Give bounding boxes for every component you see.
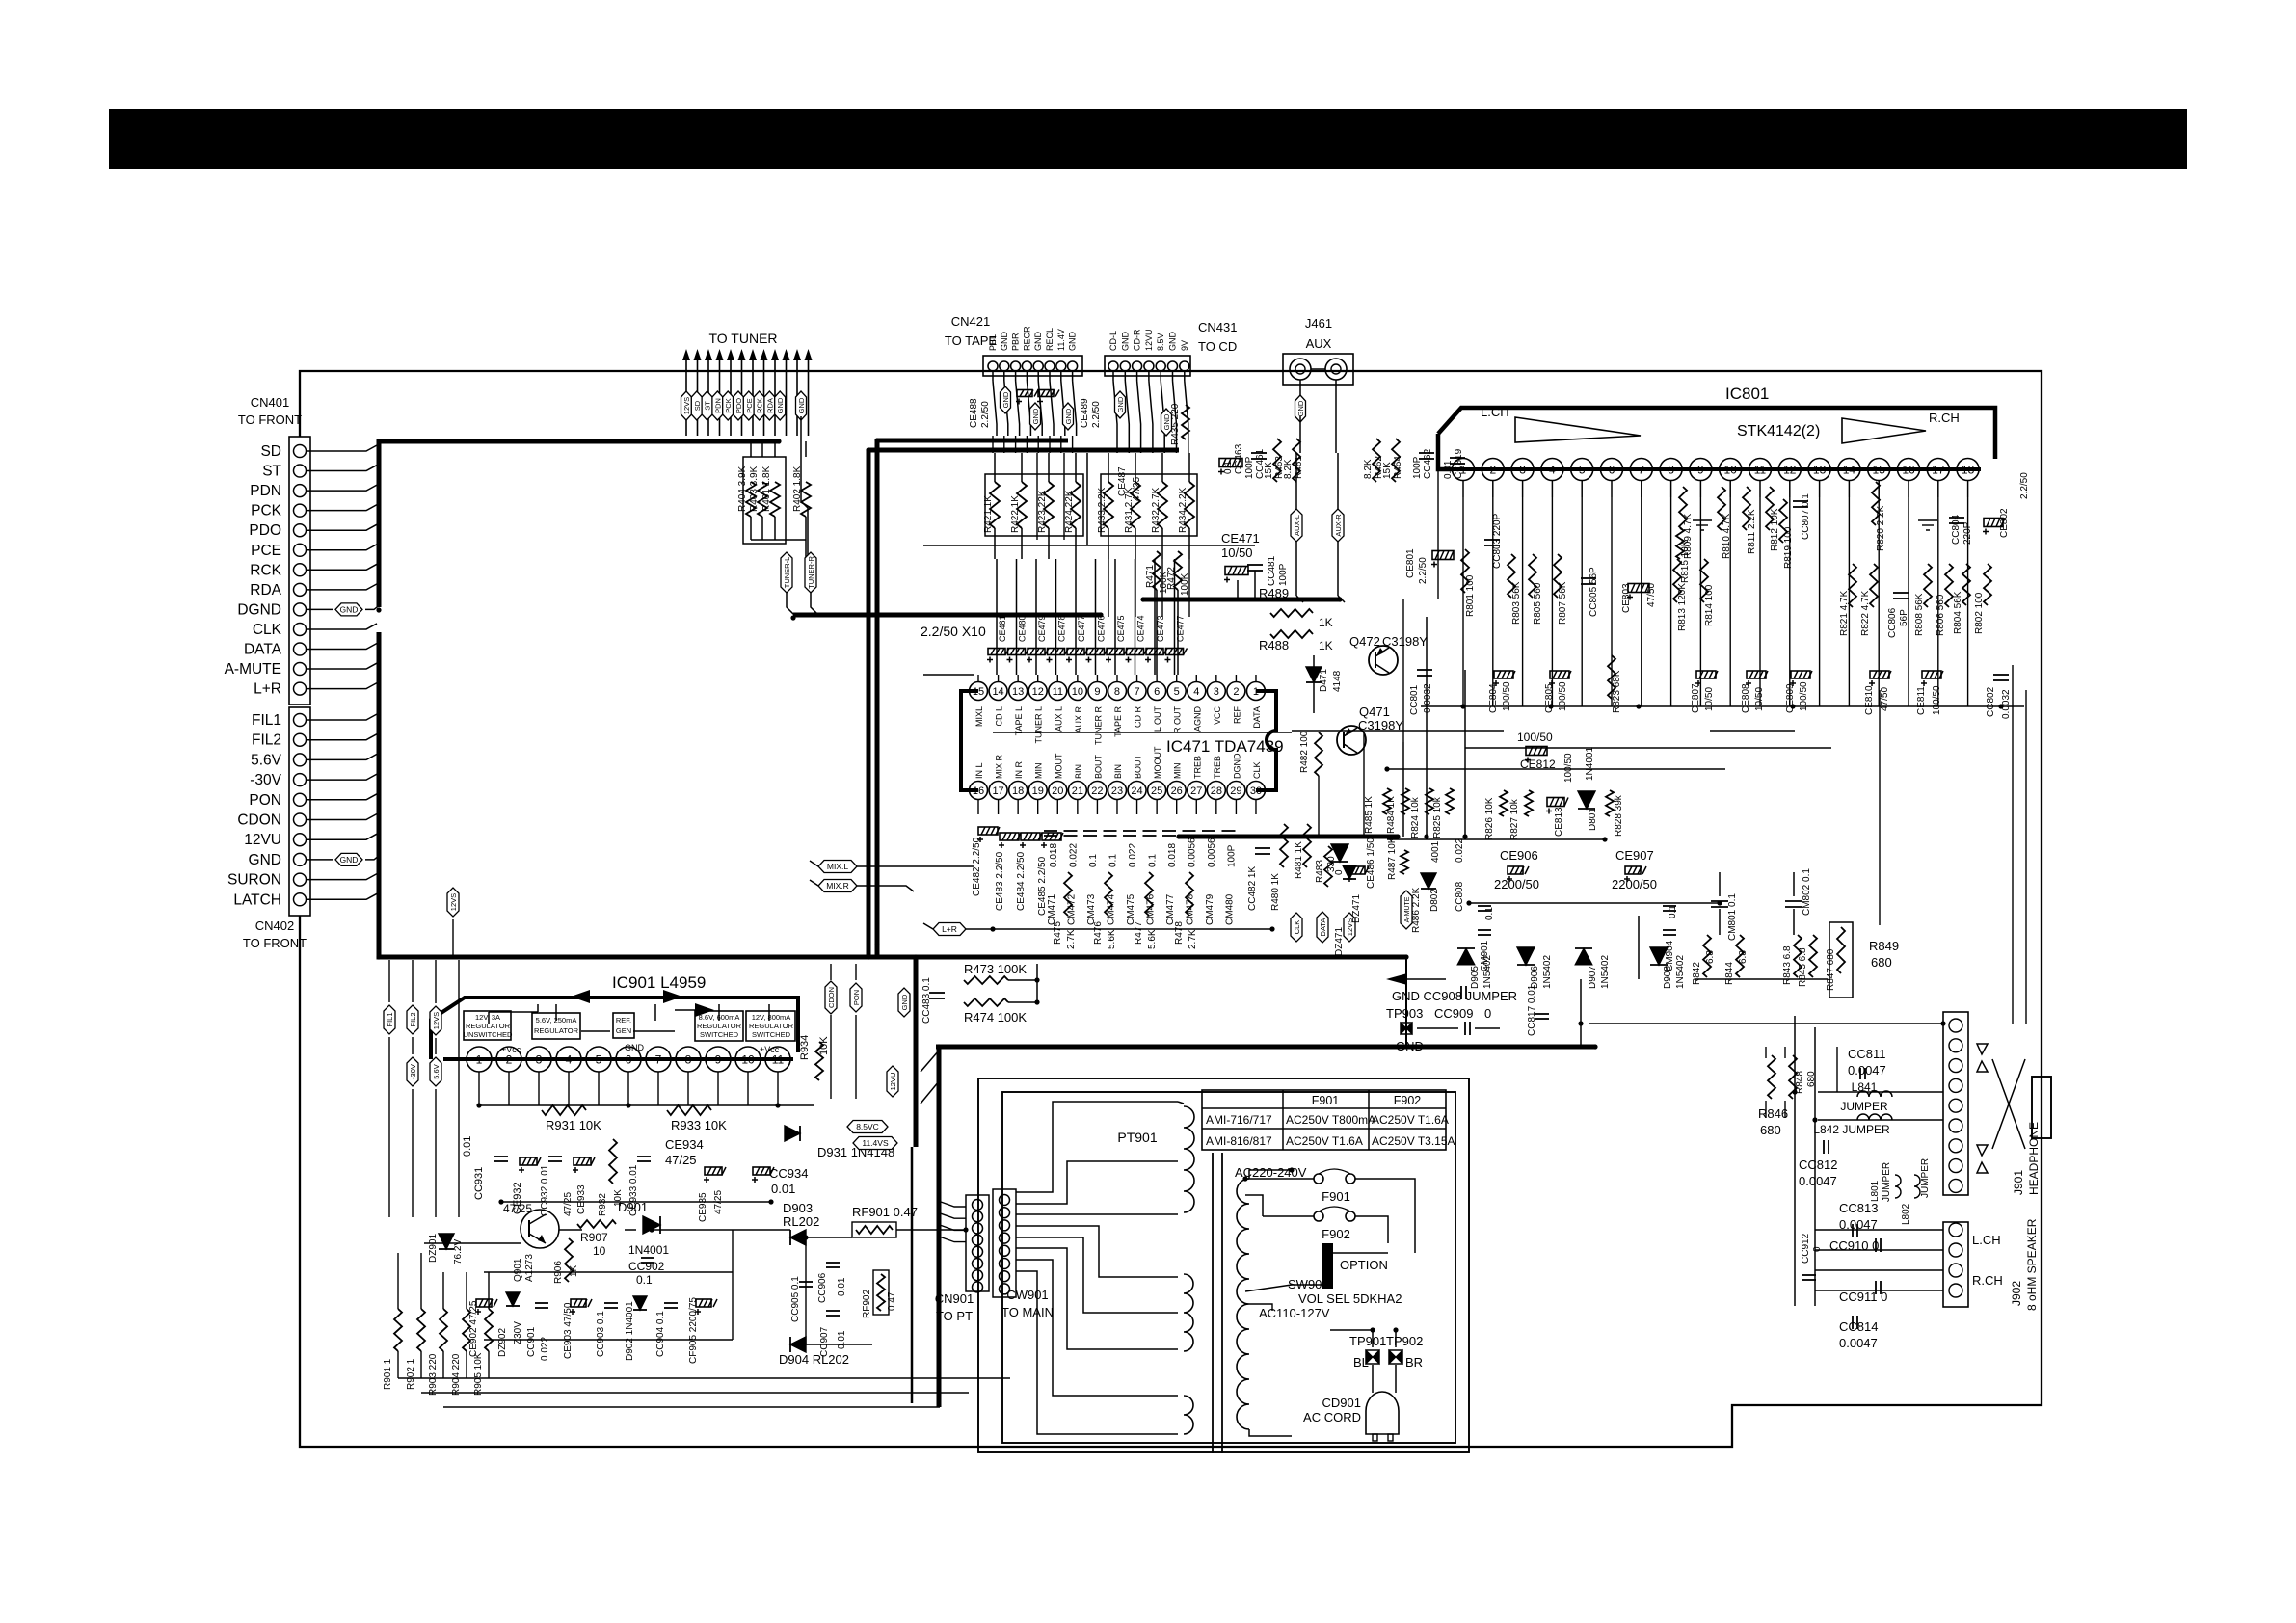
- svg-text:TUNER L: TUNER L: [1034, 706, 1044, 744]
- fuse F902: [1314, 1211, 1323, 1221]
- svg-text:12V, 3A: 12V, 3A: [475, 1013, 500, 1022]
- svg-text:7: 7: [1134, 686, 1139, 698]
- ecap CE805 100/50: [1550, 671, 1569, 678]
- svg-text:VOL SEL 5DKHA2: VOL SEL 5DKHA2: [1298, 1291, 1402, 1306]
- CN901 pin 7: [973, 1270, 983, 1281]
- svg-text:CD L: CD L: [995, 706, 1004, 727]
- svg-text:D902 1N4001: D902 1N4001: [625, 1301, 635, 1361]
- svg-text:J902: J902: [2010, 1281, 2023, 1306]
- IC471 pin 13: [1009, 682, 1028, 701]
- svg-text:10: 10: [741, 1052, 755, 1066]
- flag PDO (tuner): [734, 391, 744, 420]
- svg-text:R907: R907: [580, 1231, 608, 1244]
- ecap CE475: [1107, 649, 1124, 655]
- svg-text:CE902 47/25: CE902 47/25: [468, 1300, 479, 1357]
- wire v x1200: [1156, 590, 1158, 675]
- svg-text:R811 2.2K: R811 2.2K: [1747, 509, 1757, 554]
- svg-text:CN402: CN402: [255, 918, 294, 933]
- svg-text:IC471 TDA7439: IC471 TDA7439: [1166, 737, 1284, 756]
- svg-text:R819 100: R819 100: [1783, 526, 1794, 569]
- CW901 pin 6: [1000, 1259, 1010, 1269]
- IC901 pin rail: [443, 1057, 793, 1061]
- svg-text:0.018: 0.018: [1049, 843, 1059, 867]
- IC901 pin 3: [526, 1047, 551, 1072]
- svg-text:DATA: DATA: [244, 642, 282, 658]
- wire AUX-R: [1337, 453, 1339, 509]
- svg-text:R814 100: R814 100: [1704, 584, 1715, 626]
- fuse F901: [1314, 1174, 1323, 1184]
- svg-text:D904 RL202: D904 RL202: [779, 1352, 849, 1367]
- svg-text:0.022: 0.022: [1069, 843, 1080, 867]
- svg-text:12VS: 12VS: [449, 893, 458, 911]
- resistor R435 220: [1182, 405, 1189, 439]
- wire TUNER-L down: [787, 593, 794, 615]
- IC801 pin wire 7: [1641, 497, 1642, 706]
- wire DGND to GND flag: [307, 608, 333, 610]
- svg-text:TO FRONT: TO FRONT: [238, 412, 302, 427]
- svg-text:CC903 0.1: CC903 0.1: [596, 1311, 606, 1357]
- rail d905 top: [1469, 902, 1720, 904]
- resistor R903 220: [440, 1309, 447, 1351]
- svg-text:JUMPER: JUMPER: [1882, 1162, 1892, 1202]
- svg-text:2.2/50: 2.2/50: [1091, 401, 1102, 428]
- IC801 pin 11: [1749, 459, 1772, 481]
- IC471 pin 29: [1227, 782, 1245, 800]
- vert cm801: [1719, 872, 1721, 896]
- fusible RF901 0.47: [852, 1222, 896, 1237]
- ref gen box: [613, 1013, 634, 1038]
- svg-text:GND: GND: [1120, 332, 1130, 352]
- diode D471 4148: [1306, 667, 1322, 682]
- svg-text:23: 23: [1111, 785, 1123, 797]
- svg-text:RCK: RCK: [250, 562, 281, 578]
- flag GND r473: [898, 988, 910, 1017]
- junction dots: [376, 439, 381, 443]
- svg-text:100P: 100P: [1227, 844, 1238, 867]
- resistor R815 10K: [1676, 528, 1684, 559]
- svg-text:AMI-716/717: AMI-716/717: [1206, 1113, 1272, 1127]
- ecap CE479: [1028, 649, 1045, 655]
- ground flag GND (DGND): [335, 603, 362, 616]
- title bar (redacted header): [109, 109, 2187, 169]
- svg-text:3: 3: [1214, 686, 1219, 698]
- svg-text:CE807: CE807: [1691, 683, 1701, 713]
- GND bus stubs: [921, 1051, 939, 1072]
- svg-text:0.0056: 0.0056: [1188, 838, 1198, 867]
- svg-text:R845 6.8: R845 6.8: [1798, 947, 1808, 987]
- CN421 wire GND: [1003, 371, 1005, 381]
- svg-text:CC912: CC912: [1801, 1233, 1811, 1264]
- svg-text:CM802 0.1: CM802 0.1: [1802, 868, 1812, 916]
- CN421 pin GND: [1033, 361, 1043, 371]
- resistor R827 10K: [1525, 790, 1533, 816]
- svg-text:18: 18: [1962, 463, 1975, 476]
- wire CN401 PCE: [307, 545, 377, 550]
- resistor R489 1K: [1270, 609, 1313, 617]
- svg-text:CE802: CE802: [1999, 508, 2010, 538]
- svg-text:D802: D802: [1429, 889, 1440, 912]
- svg-text:2.7K: 2.7K: [1066, 929, 1077, 949]
- J901 pin 9: [1949, 1179, 1962, 1192]
- svg-text:CN431: CN431: [1198, 320, 1237, 334]
- wire CN401 L+R: [307, 683, 377, 689]
- wire AUX-L: [1295, 453, 1297, 509]
- svg-text:Q901: Q901: [513, 1258, 523, 1282]
- svg-text:D801: D801: [1588, 808, 1598, 831]
- rail hp long: [1589, 1023, 1943, 1024]
- svg-text:27: 27: [1190, 785, 1202, 797]
- svg-text:CM901: CM901: [1480, 940, 1490, 971]
- resistor R843 6.8: [1794, 935, 1802, 977]
- svg-text:10/50: 10/50: [1704, 687, 1715, 711]
- wire CN402 CDON: [307, 814, 377, 820]
- CN402 pin CDON: [294, 813, 307, 826]
- signal wire v8: [1154, 559, 1156, 675]
- IC471 bottom pin wire 6: [1096, 800, 1098, 814]
- resistor R480 1K: [1280, 824, 1288, 867]
- capacitor CM801 0.1: [1711, 900, 1728, 902]
- svg-text:R475: R475: [1053, 921, 1063, 945]
- svg-text:CE810: CE810: [1864, 685, 1875, 715]
- wire CN402 LATCH: [307, 893, 377, 899]
- J901 pin 2: [1949, 1039, 1962, 1052]
- CN402 pin GND: [294, 853, 307, 865]
- J901 pin 3: [1949, 1059, 1962, 1073]
- svg-text:100/50: 100/50: [1932, 685, 1942, 715]
- svg-text:PDO: PDO: [249, 522, 281, 539]
- svg-text:CM473: CM473: [1086, 893, 1097, 925]
- svg-text:R422 1K: R422 1K: [1010, 495, 1021, 533]
- svg-text:F901: F901: [1312, 1094, 1340, 1107]
- ecap CE478: [1048, 649, 1065, 655]
- svg-text:L801: L801: [1870, 1180, 1881, 1202]
- svg-text:R824 10k: R824 10k: [1410, 796, 1421, 838]
- IC801 pin wire 10: [1729, 497, 1731, 706]
- svg-text:CE803: CE803: [1621, 583, 1632, 613]
- svg-text:0.0032: 0.0032: [1423, 683, 1433, 713]
- CN402 pin FIL1: [294, 714, 307, 727]
- IC801 pin 2: [1482, 459, 1504, 481]
- svg-text:R828 39k: R828 39k: [1614, 794, 1624, 837]
- resistor R825 10K: [1446, 788, 1454, 814]
- svg-text:TO PT: TO PT: [936, 1309, 973, 1323]
- IC471 bottom pin wire 7: [1116, 800, 1118, 814]
- IC471 left bracket: [961, 691, 978, 790]
- capacitor CC462: [1419, 452, 1434, 454]
- bus audio horizontal A: [868, 448, 1179, 453]
- resistor R801 100: [1461, 549, 1469, 593]
- svg-text:STK4142(2): STK4142(2): [1737, 423, 1820, 439]
- transistor Q471: [1337, 726, 1366, 755]
- svg-text:R801 100: R801 100: [1465, 574, 1476, 617]
- CN401 pin DGND: [294, 603, 307, 616]
- svg-text:DGND: DGND: [237, 601, 281, 618]
- wire CN401 A-MUTE: [307, 663, 377, 669]
- svg-text:MIX.R: MIX.R: [826, 881, 849, 891]
- svg-text:+Vcc: +Vcc: [760, 1045, 780, 1054]
- ecap CE480: [1008, 649, 1026, 655]
- svg-text:3: 3: [536, 1052, 543, 1066]
- svg-text:12VU: 12VU: [889, 1073, 897, 1091]
- IC471 pin 5: [1167, 682, 1186, 701]
- resistor R806 560: [1945, 564, 1953, 607]
- signal wire v1: [1016, 559, 1018, 675]
- svg-text:CM475: CM475: [1126, 893, 1136, 925]
- J461 wires: [1311, 368, 1325, 370]
- capacitor CC801 0.0032: [1417, 669, 1432, 671]
- svg-text:FIL1: FIL1: [386, 1012, 394, 1026]
- svg-text:RDA: RDA: [765, 398, 774, 413]
- IC471 bottom pin wire 13: [1235, 800, 1237, 814]
- svg-text:CE903 47/50: CE903 47/50: [563, 1302, 574, 1359]
- CN431 wire GND: [1172, 371, 1174, 381]
- capacitor CC819: [1450, 457, 1465, 459]
- svg-text:CE934: CE934: [665, 1137, 704, 1152]
- ecap CE483: [1000, 833, 1019, 840]
- svg-text:ST: ST: [704, 401, 712, 411]
- svg-text:R489: R489: [1259, 586, 1289, 600]
- svg-text:26: 26: [1171, 785, 1183, 797]
- transformer primary leads: [1249, 1170, 1292, 1179]
- capacitor CM901 sym: [1478, 905, 1491, 907]
- zener DZ902: [506, 1292, 520, 1306]
- diode D907 1N5402: [1575, 948, 1592, 965]
- IC471 pin 9: [1088, 682, 1107, 701]
- svg-text:1K: 1K: [569, 1264, 579, 1277]
- svg-text:TP903: TP903: [1386, 1006, 1423, 1021]
- svg-text:FIL2: FIL2: [252, 732, 281, 749]
- CN431 pin 8.5V: [1156, 361, 1165, 371]
- svg-text:TP902: TP902: [1386, 1334, 1423, 1348]
- wire CN402 5.6V: [307, 754, 377, 759]
- flag PCE (tuner): [743, 391, 754, 420]
- IC901 pin 4: [556, 1047, 581, 1072]
- svg-text:1: 1: [476, 1052, 483, 1066]
- wire CN401 ST: [307, 466, 377, 471]
- svg-text:15: 15: [973, 686, 984, 698]
- capacitor CC906 0.01: [826, 1262, 840, 1264]
- svg-text:R933 10K: R933 10K: [671, 1118, 727, 1132]
- power-supply section box inner: [1002, 1092, 1455, 1443]
- svg-text:D903: D903: [783, 1201, 813, 1215]
- ecap CE906: [1508, 866, 1523, 874]
- bus ground main: [936, 1045, 1595, 1050]
- IC801 pin wire 5: [1581, 497, 1583, 706]
- svg-text:A-MUTE: A-MUTE: [1404, 896, 1411, 922]
- svg-text:CC483 0.1: CC483 0.1: [921, 977, 932, 1024]
- svg-text:L OUT: L OUT: [1153, 706, 1162, 732]
- svg-text:CE801: CE801: [1405, 548, 1416, 578]
- svg-text:CE907: CE907: [1615, 848, 1654, 863]
- ic901 lower rail: [479, 1104, 814, 1106]
- svg-text:13: 13: [1012, 686, 1024, 698]
- svg-text:R.CH: R.CH: [1972, 1273, 2003, 1288]
- svg-text:CE479: CE479: [1037, 615, 1047, 642]
- R847 box: [1829, 922, 1853, 998]
- svg-text:R812 10K: R812 10K: [1770, 508, 1780, 551]
- svg-text:9: 9: [715, 1052, 722, 1066]
- IC801 pin 1: [1453, 459, 1475, 481]
- connector CN401 box: [289, 437, 310, 705]
- IC801 pin wire 14: [1848, 497, 1850, 706]
- svg-text:PDO: PDO: [734, 398, 743, 413]
- svg-text:R849: R849: [1869, 939, 1899, 953]
- IC801 left wire: [1438, 434, 1452, 469]
- flag DATA: [1317, 912, 1328, 943]
- capacitor CC482 100P: [1255, 847, 1270, 849]
- ecap CE807 10/50: [1696, 671, 1716, 678]
- flag MIX.R: [818, 880, 857, 892]
- wire r848 top: [1765, 1047, 1767, 1058]
- bus audio vertical B: [875, 439, 880, 957]
- resistor R821 4.7K: [1849, 564, 1856, 607]
- svg-text:CC481: CC481: [1267, 555, 1277, 586]
- svg-text:R905 10K: R905 10K: [473, 1352, 484, 1396]
- ecap CE933: [574, 1157, 591, 1165]
- IC471 pin 19: [1028, 782, 1047, 800]
- svg-text:AUX: AUX: [1306, 336, 1332, 351]
- diode D908 1N5402: [1650, 947, 1668, 965]
- svg-text:R477: R477: [1134, 921, 1144, 945]
- svg-text:16: 16: [973, 785, 984, 797]
- IC801 pin 6: [1601, 459, 1623, 481]
- svg-text:1K: 1K: [1319, 616, 1333, 629]
- zener DZ901: [439, 1234, 454, 1249]
- resistor R401 1.8K: [770, 482, 780, 517]
- svg-text:PBR: PBR: [1011, 333, 1021, 351]
- J901 pin 4: [1949, 1078, 1962, 1092]
- CN421 pin GND: [1000, 361, 1009, 371]
- IC801 pin 8: [1660, 459, 1682, 481]
- bus tuner horizontal: [793, 613, 1101, 618]
- svg-text:MIX.L: MIX.L: [827, 862, 848, 871]
- IC471 bottom pin wire 2: [1017, 800, 1019, 814]
- svg-text:9: 9: [1094, 686, 1100, 698]
- IC801 pin wire 12: [1789, 497, 1791, 706]
- wire q471 branch: [1363, 733, 1365, 837]
- svg-text:CC806: CC806: [1887, 607, 1898, 638]
- svg-text:0.01: 0.01: [771, 1182, 795, 1196]
- wire CN401 SD: [307, 445, 377, 451]
- svg-text:CN901: CN901: [935, 1291, 974, 1306]
- IC801 pin rail: [1451, 467, 1981, 471]
- svg-text:2200/50: 2200/50: [1612, 877, 1657, 891]
- svg-text:22: 22: [1091, 785, 1103, 797]
- ecap CE484: [1021, 833, 1040, 840]
- resistor R476 5.6K: [1105, 872, 1112, 916]
- svg-text:R471: R471: [1145, 565, 1156, 588]
- CN431 pin CD-L: [1108, 361, 1118, 371]
- svg-text:LATCH: LATCH: [233, 891, 281, 908]
- svg-text:CC812: CC812: [1799, 1157, 1837, 1172]
- svg-text:RCK: RCK: [756, 398, 764, 413]
- IC801 pin wire 4: [1551, 497, 1553, 706]
- CN401 pin DATA: [294, 643, 307, 655]
- IC471 pin 23: [1108, 782, 1126, 800]
- svg-text:R826 10K: R826 10K: [1484, 797, 1495, 840]
- wire GND flag to bus: [365, 605, 379, 609]
- flag GND (tape 3): [1063, 403, 1074, 430]
- capacitor CC804 220P: [1949, 517, 1964, 519]
- svg-text:47/50: 47/50: [1880, 687, 1890, 711]
- svg-text:10: 10: [593, 1244, 606, 1258]
- svg-text:12VS: 12VS: [682, 397, 691, 414]
- svg-text:SWITCHED: SWITCHED: [752, 1030, 791, 1039]
- diode D905 1N5402: [1457, 948, 1475, 965]
- ground sym L: [1693, 519, 1712, 521]
- svg-text:8: 8: [685, 1052, 692, 1066]
- ecap CE477: [1166, 649, 1184, 655]
- svg-text:GND: GND: [625, 1043, 645, 1052]
- IC901 pin 1: [467, 1047, 492, 1072]
- flag 5.6V: [430, 1057, 441, 1086]
- svg-text:RF902: RF902: [862, 1290, 872, 1318]
- capacitor CC803 220P: [1484, 539, 1500, 541]
- svg-text:6: 6: [626, 1052, 632, 1066]
- svg-text:CC907: CC907: [819, 1326, 830, 1357]
- svg-text:15K: 15K: [1382, 462, 1393, 479]
- J902 pin 1: [1949, 1223, 1962, 1237]
- svg-text:UNSWITCHED: UNSWITCHED: [464, 1030, 513, 1039]
- svg-text:2.2/50 X10: 2.2/50 X10: [921, 624, 986, 639]
- svg-text:12: 12: [1783, 463, 1797, 476]
- svg-text:CE477: CE477: [1077, 615, 1086, 642]
- IC471 bottom pin wire 4: [1056, 800, 1058, 814]
- capacitor CC932 0.01: [548, 1156, 562, 1157]
- wire v x1284: [1237, 580, 1239, 599]
- diode D906 1N5402: [1517, 947, 1535, 965]
- IC901 pin 10: [735, 1047, 761, 1072]
- tuner wire arrow 6: [741, 357, 743, 436]
- svg-text:CLK: CLK: [1252, 761, 1262, 779]
- svg-text:AC250V T3.15A: AC250V T3.15A: [1372, 1134, 1455, 1148]
- coil L801: [1895, 1175, 1901, 1198]
- flag 11.4VS: [853, 1137, 897, 1150]
- CN431 pin GND: [1120, 361, 1130, 371]
- svg-text:TUNER-R: TUNER-R: [807, 556, 815, 589]
- IC471 bottom pin wire 11: [1195, 800, 1197, 814]
- svg-text:CE483 2.2/50: CE483 2.2/50: [995, 851, 1005, 911]
- flag GND (cd 1): [1115, 391, 1126, 418]
- capacitor CM476: [1143, 830, 1157, 832]
- svg-text:R481 1K: R481 1K: [1294, 841, 1304, 879]
- resistor R488 1K: [1270, 630, 1313, 638]
- CN421 wire RECL: [1049, 371, 1051, 381]
- svg-text:R434 2.2K: R434 2.2K: [1178, 487, 1188, 533]
- CN402 pin 12VU: [294, 834, 307, 846]
- resistor R811 2.2K: [1743, 487, 1750, 530]
- svg-text:1N4001: 1N4001: [628, 1243, 669, 1257]
- IC801 pin 15: [1868, 459, 1890, 481]
- svg-text:0.01: 0.01: [462, 1136, 473, 1157]
- tuner wire arrow 11: [796, 357, 798, 436]
- capacitor CC933 0.01: [637, 1156, 651, 1157]
- IC471 top pin wire 10: [1176, 675, 1178, 681]
- IC471 pin 6: [1148, 682, 1166, 701]
- arrow left ic901: [571, 990, 590, 1003]
- svg-text:AC110-127V: AC110-127V: [1259, 1306, 1330, 1320]
- IC471 pin 8: [1108, 682, 1126, 701]
- lower mid rail: [993, 928, 1272, 930]
- svg-text:J461: J461: [1305, 316, 1332, 331]
- IC901 pin drop wires: [478, 1072, 480, 1105]
- wire MIX.L: [857, 865, 974, 867]
- svg-text:CE935: CE935: [698, 1192, 708, 1222]
- CN431 wire GND: [1124, 371, 1126, 381]
- svg-text:0.0032: 0.0032: [2001, 689, 2012, 719]
- J461 jack left: [1290, 359, 1311, 380]
- signal wire v6: [1114, 559, 1116, 675]
